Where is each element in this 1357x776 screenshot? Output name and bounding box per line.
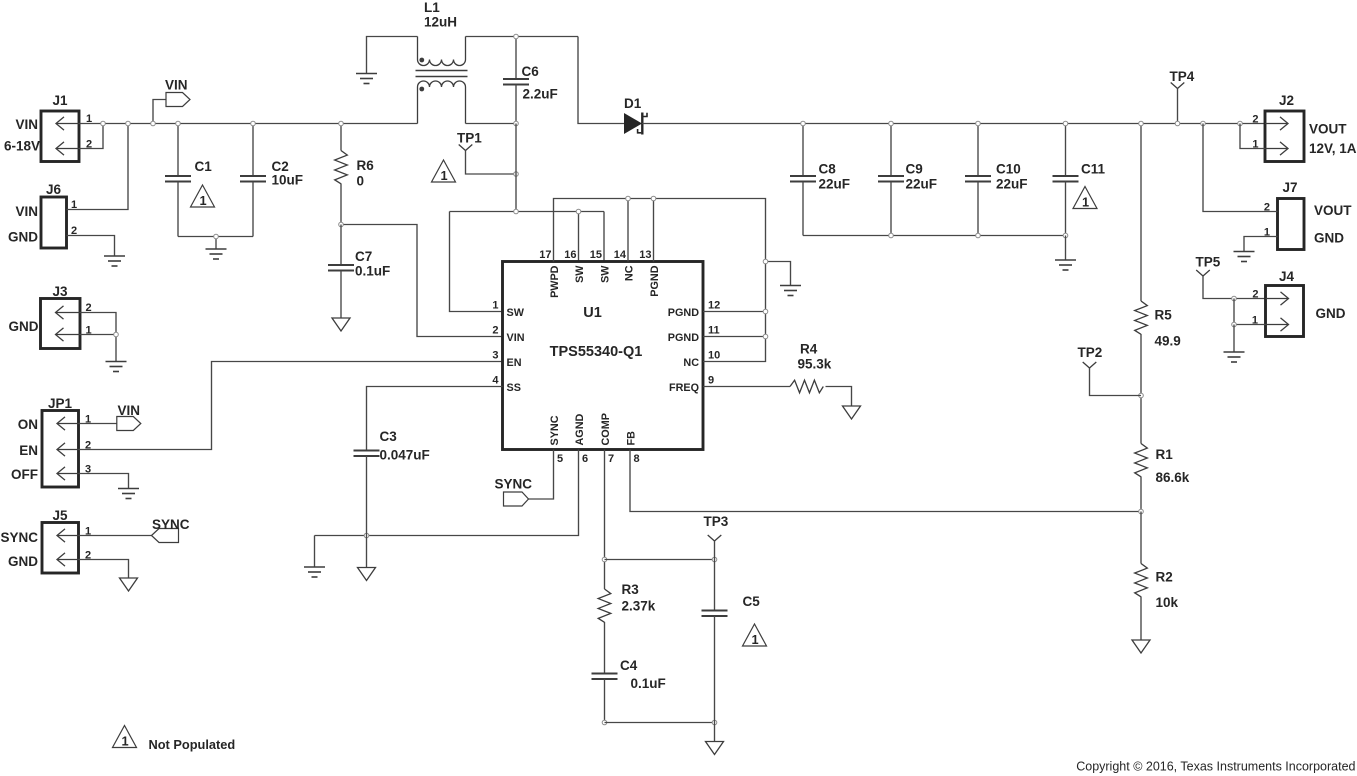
wire TP4 stem [1177, 89, 1179, 124]
wire R6 to U1 VIN pin [341, 225, 503, 337]
wire bottom tie C4-C5 [605, 722, 715, 724]
junction R6 on rail [339, 121, 344, 126]
node VIN flag at JP1 [117, 417, 141, 431]
jumper JP1 [42, 411, 79, 488]
wire SW vertical [515, 124, 517, 212]
svg-text:3: 3 [492, 350, 498, 362]
junction C6 on top rail [514, 34, 519, 39]
L1 core lines [416, 71, 468, 77]
svg-text:14: 14 [614, 249, 627, 261]
svg-text:17: 17 [539, 249, 551, 261]
svg-text:GND: GND [1314, 231, 1344, 246]
capacitor C9 [878, 176, 904, 182]
wire C9 bottom [890, 182, 892, 236]
J3 pin 1 arrow [56, 328, 81, 341]
svg-text:J5: J5 [52, 508, 68, 523]
wire C10 bottom [977, 182, 979, 236]
junction divider on VOUT rail [1139, 121, 1144, 126]
svg-text:PGND: PGND [668, 307, 699, 319]
J5 pin 1 arrow [57, 529, 79, 542]
junction J6 pin1 on rail [126, 121, 131, 126]
junction C8 on VOUT rail [801, 121, 806, 126]
connector J6 [41, 197, 67, 248]
J2 pin 2 arrow [1265, 117, 1288, 130]
wire J3 pin1 to ground [80, 335, 116, 362]
svg-text:J1: J1 [52, 93, 68, 108]
wire top rail left segment [367, 37, 418, 74]
inductor L1 primary winding [418, 37, 466, 66]
wire R4 to ground [826, 387, 852, 407]
svg-text:AGND: AGND [574, 414, 586, 446]
svg-text:ON: ON [18, 417, 38, 432]
J2 pin 1 arrow [1265, 142, 1288, 155]
svg-text:22uF: 22uF [996, 177, 1028, 192]
JP1 pin 3 arrow [57, 467, 79, 480]
capacitor C6 [503, 79, 529, 85]
wire C6 top [515, 37, 517, 80]
J4 pin 2 arrow [1266, 292, 1289, 305]
test point TP3 [708, 535, 722, 541]
wire top rail right segment [466, 36, 579, 38]
svg-text:10k: 10k [1156, 595, 1179, 610]
svg-text:R5: R5 [1155, 308, 1173, 323]
J3 pin 2 arrow [56, 306, 81, 319]
node SYNC flag at U1 [504, 492, 529, 506]
svg-text:C4: C4 [620, 658, 638, 673]
capacitor C3 [354, 451, 380, 457]
wire AGND to ground [314, 536, 316, 568]
svg-text:0.1uF: 0.1uF [631, 676, 666, 691]
svg-text:C6: C6 [522, 64, 540, 79]
wire C7 bottom [340, 271, 342, 319]
ground (triangle) at J5 pin 2 [120, 578, 138, 591]
J4 pin 1 arrow [1266, 318, 1289, 331]
svg-text:R2: R2 [1156, 570, 1173, 585]
svg-text:C10: C10 [996, 162, 1021, 177]
capacitor C11 [1053, 176, 1079, 182]
svg-text:VIN: VIN [15, 117, 38, 132]
connector J5 [42, 523, 79, 574]
wire U1 pin5 to SYNC flag [529, 450, 554, 500]
wire C8 top [802, 124, 804, 177]
svg-text:SW: SW [600, 265, 612, 283]
wire R5 to R1 [1140, 334, 1142, 444]
wire U1 pin4 SS to C3 [367, 387, 503, 451]
junction VIN flag on rail [151, 121, 156, 126]
svg-text:GND: GND [1316, 306, 1346, 321]
wire C10 top [977, 124, 979, 177]
wire PGND net to ground [766, 262, 791, 286]
svg-text:13: 13 [639, 249, 651, 261]
resistor R4 [790, 380, 823, 393]
wire TP3 stem [714, 541, 716, 560]
svg-text:C3: C3 [380, 429, 398, 444]
svg-text:49.9: 49.9 [1155, 334, 1181, 349]
svg-text:SYNC: SYNC [549, 415, 561, 445]
wire R6 top [340, 124, 342, 151]
svg-text:1: 1 [1082, 195, 1089, 210]
svg-text:1: 1 [440, 168, 447, 183]
svg-text:EN: EN [19, 443, 38, 458]
wire U1 pin16 stub [578, 212, 580, 262]
wire C11 top [1065, 124, 1067, 177]
svg-text:TP2: TP2 [1078, 345, 1103, 360]
svg-text:JP1: JP1 [48, 396, 73, 411]
junction TP4 on VOUT rail [1175, 121, 1180, 126]
JP1 pin 2 arrow [57, 443, 79, 456]
junction PGND net ground tap [763, 259, 768, 264]
wire U1 pin13 stub [653, 199, 655, 262]
ground at AGND [304, 567, 325, 577]
junction C10 on VOUT rail [976, 121, 981, 126]
svg-text:J2: J2 [1279, 93, 1294, 108]
svg-text:TP4: TP4 [1170, 69, 1195, 84]
svg-text:R1: R1 [1156, 447, 1174, 462]
svg-text:1: 1 [751, 632, 758, 647]
wire VIN flag stem [153, 100, 166, 124]
wire J1 pin2 to pin1 node [79, 124, 103, 149]
wire R3 to C4 [604, 622, 606, 674]
wire R2 to ground [1140, 597, 1142, 641]
wire C9 top [890, 124, 892, 177]
connector J2 [1265, 111, 1304, 162]
svg-text:86.6k: 86.6k [1156, 470, 1190, 485]
wire C4 bottom [604, 679, 606, 723]
junction FB node [1139, 509, 1144, 514]
wire output cap ground bus [803, 235, 1066, 237]
node VIN flag on rail [166, 93, 190, 107]
wire C8 bottom [802, 182, 804, 236]
connector J7 [1278, 199, 1305, 250]
ground (triangle) at R4 [843, 406, 861, 419]
svg-text:12V, 1A: 12V, 1A [1309, 141, 1357, 156]
junction C11 on VOUT rail [1063, 121, 1068, 126]
resistor R2 [1135, 564, 1148, 597]
svg-text:Not Populated: Not Populated [149, 737, 236, 752]
ground (triangle) at R2 [1132, 640, 1150, 653]
svg-text:C1: C1 [195, 159, 213, 174]
wire U1 pin14 stub [627, 199, 629, 262]
test point TP5 [1196, 270, 1210, 276]
ground at JP1 pin 3 [118, 489, 139, 499]
svg-text:R3: R3 [622, 582, 640, 597]
wire C3 bottom [366, 456, 368, 536]
junction C6 on SW node [514, 121, 519, 126]
junction COMP node [602, 557, 607, 562]
svg-text:J4: J4 [1279, 269, 1295, 284]
svg-text:PWPD: PWPD [549, 265, 561, 298]
junction J2 pin1 tap [1238, 121, 1243, 126]
wire EN net JP1 pin2 to U1 EN [79, 362, 503, 450]
svg-text:U1: U1 [583, 305, 602, 321]
svg-text:EN: EN [507, 357, 522, 369]
wire VOUT rail [642, 123, 1266, 125]
svg-text:2.2uF: 2.2uF [523, 87, 558, 102]
svg-text:NC: NC [624, 265, 636, 281]
JP1 pin 1 arrow [57, 417, 79, 430]
junction J1 pins on rail [101, 121, 106, 126]
svg-text:L1: L1 [424, 0, 440, 15]
junction C4 bottom [602, 720, 607, 725]
svg-text:95.3k: 95.3k [798, 357, 832, 372]
ground at J7 pin 1 [1234, 252, 1255, 262]
svg-text:SS: SS [507, 382, 521, 394]
wire U1 pin9 FREQ to R4 [703, 386, 790, 388]
not-populated legend mark [113, 726, 137, 749]
junction C1 on rail [176, 121, 181, 126]
svg-text:VOUT: VOUT [1309, 122, 1347, 137]
wire COMP node to TP3 column [605, 559, 715, 561]
not-populated mark at C1 [191, 185, 215, 208]
svg-text:C7: C7 [355, 249, 372, 264]
junction C5 bottom [712, 720, 717, 725]
resistor R6 [335, 151, 348, 184]
junction pin 12 on PGND vertical [763, 309, 768, 314]
junction C9 on VOUT rail [889, 121, 894, 126]
svg-text:R4: R4 [800, 342, 818, 357]
junction J4 pin2 node [1232, 296, 1237, 301]
node SYNC flag at J5 [152, 529, 179, 543]
svg-text:C9: C9 [906, 162, 923, 177]
wire U1 pin12 to PGND vertical [703, 311, 766, 313]
wire U1 pin11 to PGND vertical [703, 336, 766, 338]
wire to compensation ground [714, 723, 716, 742]
svg-text:12uH: 12uH [424, 15, 457, 30]
not-populated mark at C11 [1073, 187, 1097, 210]
wire U1 pin7 COMP down [604, 450, 606, 590]
J1 pin 1 arrow [56, 117, 79, 130]
wire R6 bottom [340, 184, 342, 225]
diode D1 (Schottky) [624, 113, 647, 135]
wire J1 pin1 to VIN rail [79, 123, 103, 125]
ground (triangle) on AGND net [358, 568, 376, 581]
wire C5 top [714, 560, 716, 611]
ground at U1 PGND [780, 286, 801, 296]
junction SW net at pin 16 [576, 209, 581, 214]
svg-text:VIN: VIN [118, 403, 141, 418]
wire JP1 pin3 to ground [79, 474, 129, 489]
svg-text:TP3: TP3 [704, 514, 729, 529]
svg-text:16: 16 [564, 249, 576, 261]
wire J3 pin2 to pin1 node [80, 313, 116, 335]
junction pin 13 on top net [651, 196, 656, 201]
svg-text:GND: GND [8, 554, 38, 569]
junction SW net at C6 column [514, 209, 519, 214]
inductor L1 secondary winding [418, 81, 466, 124]
wire C5 bottom [714, 616, 716, 723]
junction C11 on ground bus [1063, 233, 1068, 238]
capacitor C8 [790, 176, 816, 182]
J1 pin 2 arrow [56, 142, 79, 155]
junction pin 14 on top net [626, 196, 631, 201]
wire J5 pin2 to ground [79, 560, 129, 579]
resistor R1 [1135, 444, 1148, 477]
svg-text:4: 4 [492, 375, 499, 387]
junction C9 on ground bus [889, 233, 894, 238]
svg-text:SW: SW [507, 307, 525, 319]
svg-text:22uF: 22uF [906, 177, 938, 192]
capacitor C7 [328, 265, 354, 271]
svg-text:TP1: TP1 [457, 131, 482, 146]
svg-text:0.1uF: 0.1uF [355, 264, 390, 279]
svg-text:J6: J6 [46, 182, 62, 197]
wire U1 pin8 FB to divider [630, 450, 1141, 512]
svg-text:7: 7 [608, 453, 614, 465]
wire divider top [1140, 124, 1142, 302]
svg-text:15: 15 [590, 249, 602, 261]
L1 primary phase dot [419, 58, 424, 63]
svg-text:GND: GND [9, 319, 39, 334]
svg-text:VIN: VIN [165, 78, 188, 93]
capacitor C1 [165, 176, 191, 182]
svg-text:COMP: COMP [600, 413, 612, 445]
svg-text:8: 8 [634, 453, 640, 465]
svg-text:SYNC: SYNC [495, 477, 533, 492]
wire U1 pin6 AGND down [315, 450, 579, 536]
wire TP5 stem [1203, 276, 1266, 299]
wire R1 to FB node [1140, 477, 1142, 512]
L1 secondary phase dot [419, 87, 424, 92]
svg-text:10uF: 10uF [272, 173, 304, 188]
wire PWPD/PGND top net [554, 199, 766, 362]
wire VIN rail [103, 123, 418, 125]
svg-text:22uF: 22uF [819, 177, 851, 192]
wire TP2 stem [1090, 368, 1142, 396]
capacitor C2 [240, 176, 266, 182]
svg-text:R6: R6 [357, 158, 375, 173]
wire J5 pin1 to SYNC flag [79, 535, 152, 537]
wire SW net horizontal [450, 211, 605, 213]
svg-text:1: 1 [492, 300, 498, 312]
ground at C1-C2 [206, 249, 227, 259]
resistor R3 [598, 589, 611, 622]
svg-text:NC: NC [683, 357, 699, 369]
svg-text:FB: FB [626, 431, 638, 446]
svg-text:VIN: VIN [15, 204, 38, 219]
test point TP4 [1171, 83, 1185, 89]
junction pin 11 on PGND vertical [763, 334, 768, 339]
connector J1 [41, 111, 79, 162]
wire C1 bottom [177, 182, 179, 237]
svg-text:9: 9 [708, 375, 714, 387]
ground (triangle) at compensation [706, 742, 724, 755]
wire TP1 stem [466, 151, 517, 175]
svg-text:5: 5 [557, 453, 563, 465]
svg-text:6: 6 [582, 453, 588, 465]
junction TP2 on divider [1139, 393, 1144, 398]
svg-text:1: 1 [121, 734, 128, 749]
svg-text:D1: D1 [624, 96, 642, 111]
wire C6 bottom to SW node [515, 85, 517, 124]
capacitor C4 [592, 674, 618, 680]
svg-text:C11: C11 [1081, 162, 1106, 177]
wire bus to ground [215, 237, 217, 250]
wire U1 pin15 stub [603, 212, 605, 262]
wire C2 top [252, 124, 254, 177]
svg-text:12: 12 [708, 300, 720, 312]
svg-text:VOUT: VOUT [1314, 203, 1352, 218]
svg-text:SW: SW [574, 265, 586, 283]
resistor R5 [1135, 301, 1148, 334]
junction C1-C2 bus [214, 234, 219, 239]
capacitor C10 [965, 176, 991, 182]
svg-text:C8: C8 [819, 162, 837, 177]
wire C7 top [340, 225, 342, 266]
connector J3 [41, 299, 81, 349]
ground at J4 [1224, 352, 1245, 362]
svg-text:10: 10 [708, 350, 720, 362]
svg-text:TP5: TP5 [1196, 255, 1221, 270]
wire J6 pin2 to ground [67, 236, 115, 257]
svg-text:SYNC: SYNC [152, 517, 190, 532]
svg-text:2: 2 [492, 325, 498, 337]
wire C1 top [177, 124, 179, 177]
connector J4 [1266, 286, 1304, 337]
wire bus to ground [1065, 236, 1067, 261]
svg-text:Copyright © 2016, Texas Instru: Copyright © 2016, Texas Instruments Inco… [1076, 760, 1355, 774]
op-amp U1 (IC body) [503, 262, 704, 450]
J5 pin 2 arrow [57, 553, 79, 566]
svg-text:1: 1 [199, 193, 206, 208]
wire AGND triangle stem [366, 536, 368, 568]
svg-text:2: 2 [1252, 289, 1258, 301]
ground at J6 pin 2 [104, 256, 125, 266]
svg-text:6-18V: 6-18V [4, 139, 40, 154]
wire VOUT to J7 pin2 [1203, 124, 1278, 212]
test point TP2 [1083, 362, 1097, 368]
wire J2 pin1 feed [1240, 124, 1265, 149]
wire J4 pin1 node [1234, 299, 1266, 325]
svg-text:J7: J7 [1282, 180, 1297, 195]
wire C11 bottom [1065, 182, 1067, 236]
svg-text:PGND: PGND [649, 265, 661, 296]
svg-text:2: 2 [1252, 114, 1258, 126]
junction TP3 column top [712, 557, 717, 562]
wire FB node to R2 [1140, 512, 1142, 564]
svg-text:OFF: OFF [11, 467, 38, 482]
svg-text:0.047uF: 0.047uF [380, 448, 430, 463]
wire J7 pin1 to ground [1244, 237, 1278, 252]
junction C10 on ground bus [976, 233, 981, 238]
junction R6-C7 node [339, 222, 344, 227]
wire SW rail under L1 [466, 123, 517, 125]
svg-text:11: 11 [708, 325, 720, 337]
junction TP1 on SW vertical [514, 172, 519, 177]
not-populated mark at C5 [743, 624, 767, 647]
wire C1-C2 ground bus [178, 236, 253, 238]
svg-text:GND: GND [8, 230, 38, 245]
svg-text:PGND: PGND [668, 332, 699, 344]
junction C3 on AGND net [364, 533, 369, 538]
not-populated mark at TP1 [432, 160, 456, 183]
svg-text:VIN: VIN [507, 332, 525, 344]
wire C2 bottom [252, 182, 254, 237]
svg-text:C5: C5 [743, 594, 761, 609]
ground (triangle) at C7 [332, 318, 350, 331]
junction C2 on rail [251, 121, 256, 126]
svg-text:2.37k: 2.37k [622, 599, 656, 614]
junction J3 pins [114, 332, 119, 337]
svg-text:FREQ: FREQ [669, 382, 699, 394]
svg-text:0: 0 [357, 174, 365, 189]
wire top rail down to D1 anode [578, 37, 624, 124]
wire SW net to U1 pin 1 [450, 212, 503, 312]
capacitor C5 [702, 611, 728, 617]
ground at L1 primary top [356, 74, 377, 84]
svg-text:TPS55340-Q1: TPS55340-Q1 [550, 344, 643, 360]
test point TP1 [459, 145, 473, 151]
svg-text:SYNC: SYNC [0, 530, 38, 545]
